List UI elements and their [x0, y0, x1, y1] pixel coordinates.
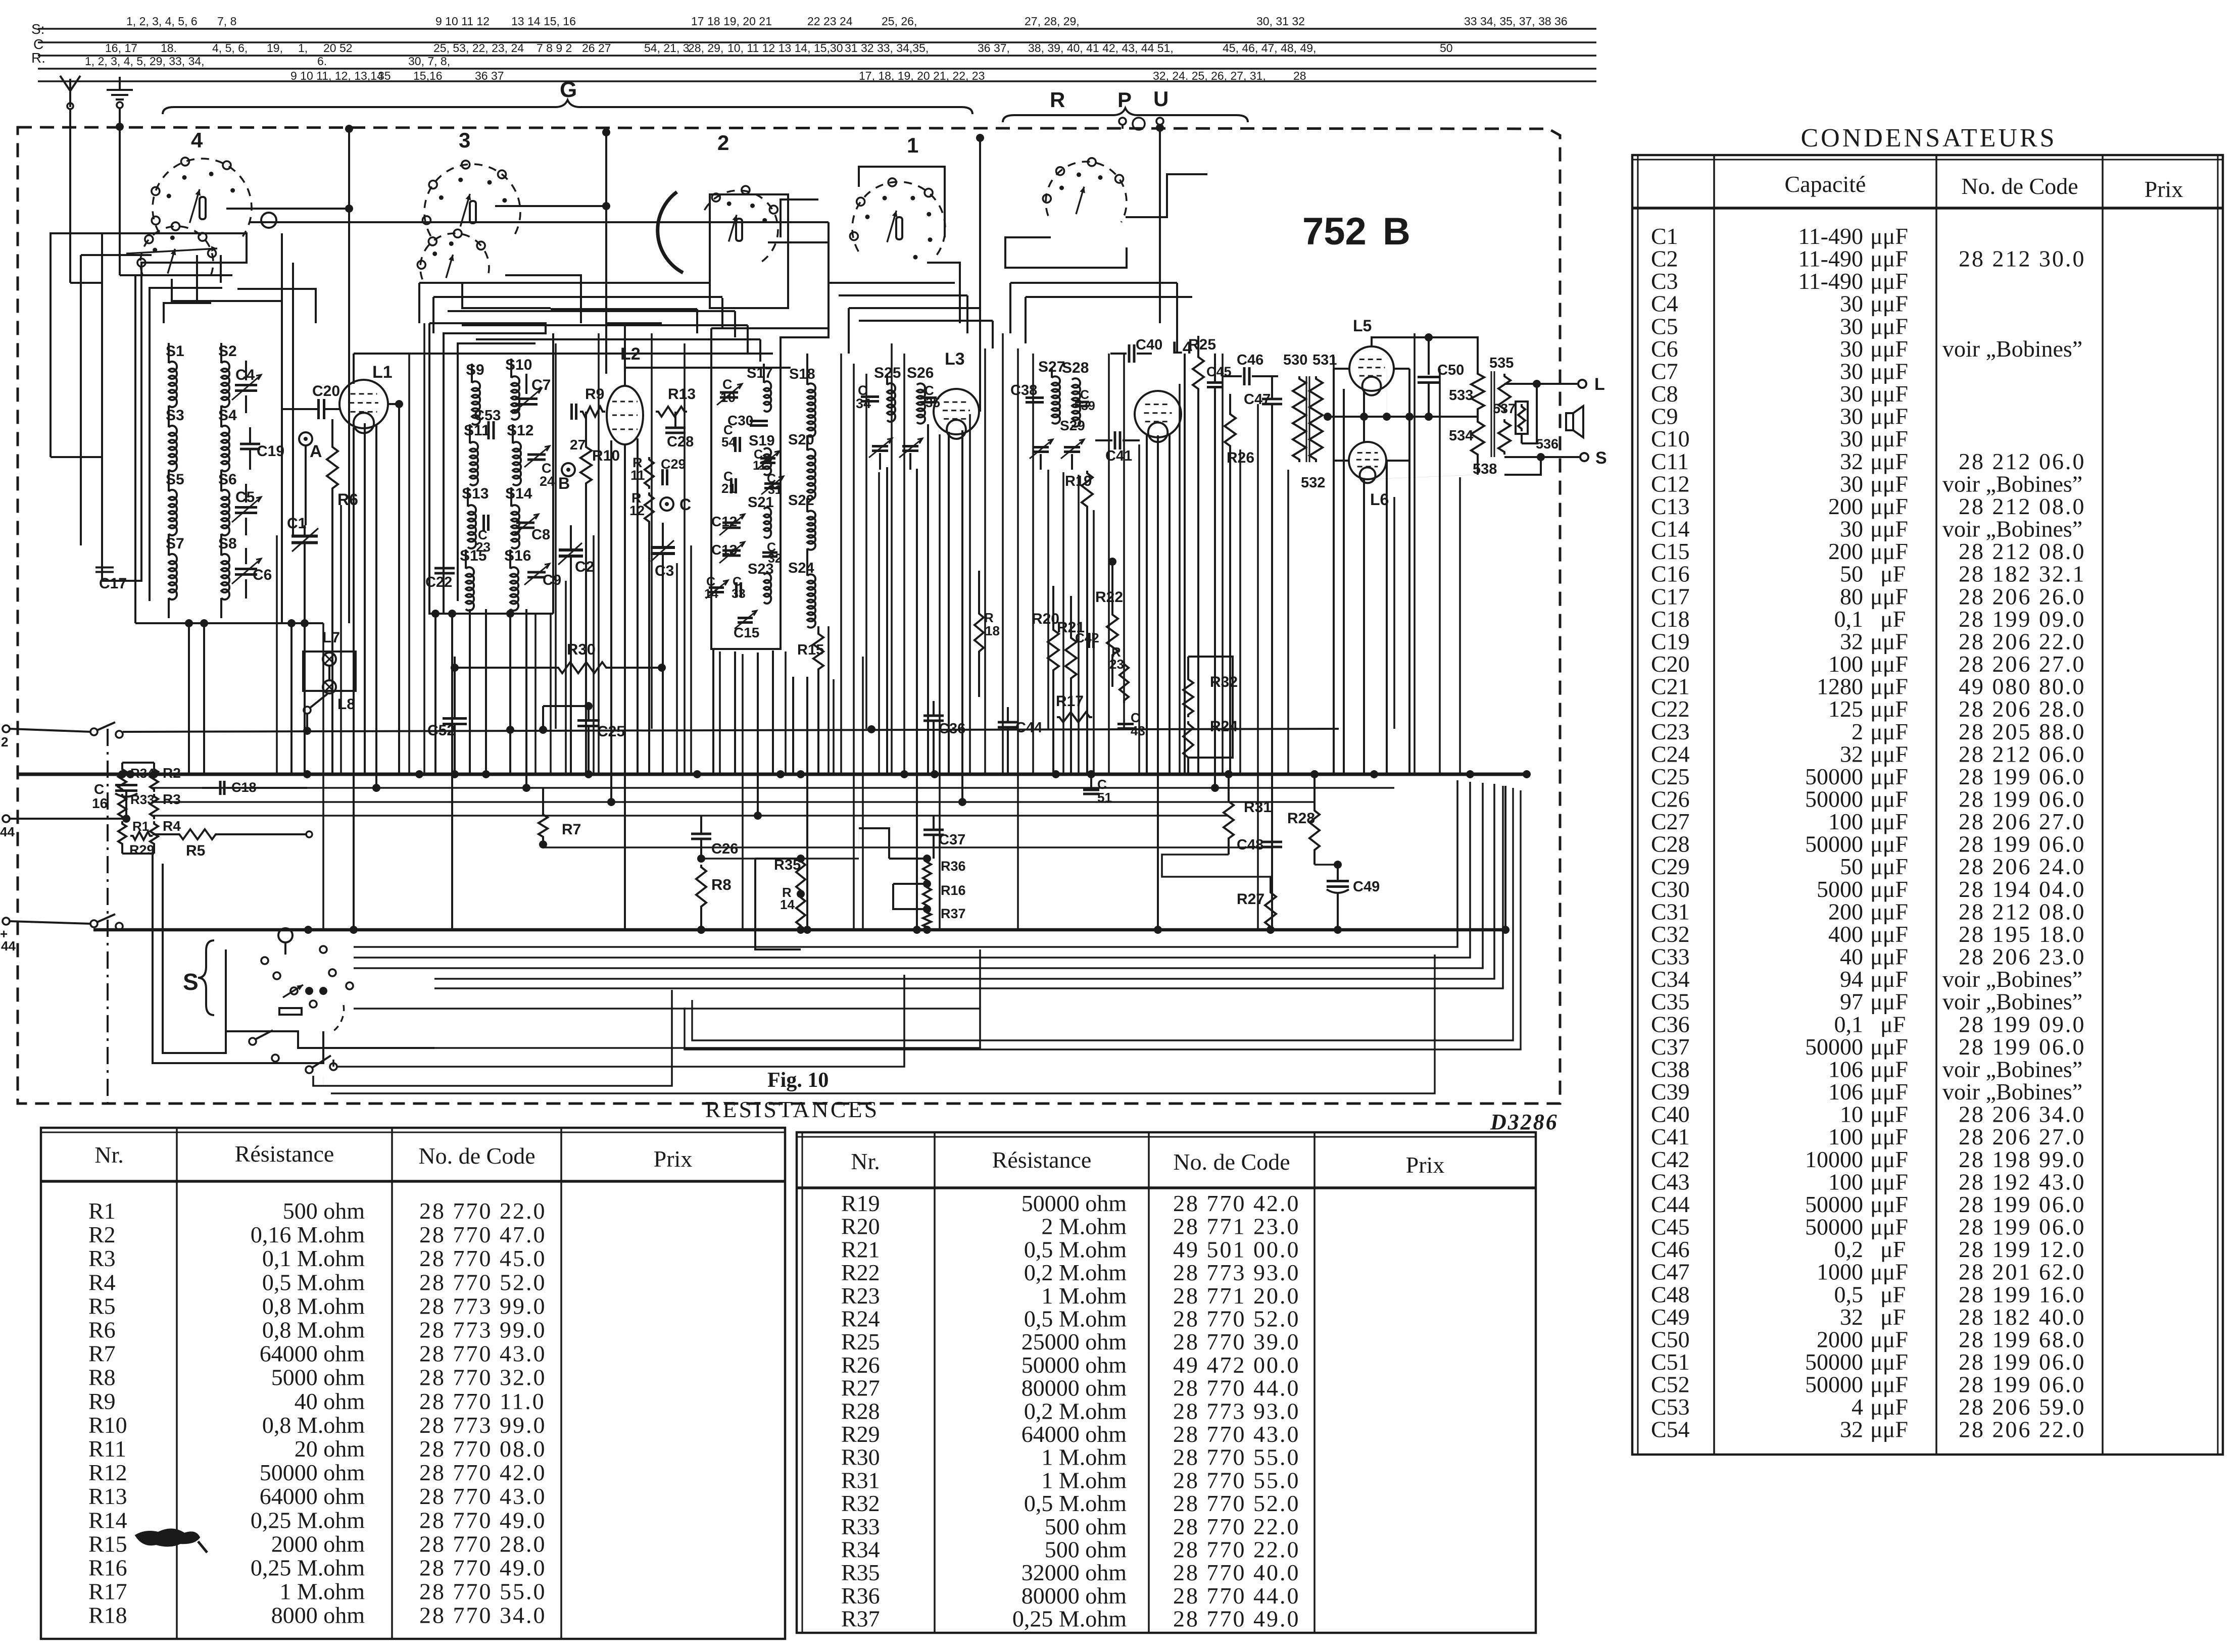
coil S21	[748, 494, 774, 538]
svg-text:44: 44	[0, 824, 15, 839]
svg-text:23: 23	[476, 539, 491, 555]
svg-text:0,5 M.ohm: 0,5 M.ohm	[1024, 1306, 1127, 1332]
winding 532 label	[1301, 475, 1325, 491]
svg-text:28 770 45.0: 28 770 45.0	[419, 1245, 547, 1271]
svg-text:U: U	[1153, 87, 1169, 111]
svg-text:μμF: μμF	[1870, 764, 1908, 789]
svg-text:R3: R3	[88, 1245, 116, 1271]
svg-text:36 37,: 36 37,	[978, 41, 1010, 55]
svg-text:μμF: μμF	[1870, 651, 1908, 677]
svg-text:C49: C49	[1651, 1304, 1690, 1330]
switch 4 contact wires	[126, 209, 829, 323]
svg-text:S: S	[183, 969, 199, 995]
wire mid lines 3	[152, 812, 1228, 820]
svg-text:R32: R32	[841, 1490, 880, 1516]
svg-text:L5: L5	[1353, 317, 1372, 335]
winding 530	[1283, 352, 1307, 462]
svg-text:28, 29,: 28, 29,	[688, 41, 723, 55]
capacitor C43	[1117, 710, 1145, 738]
resistor R4	[150, 818, 181, 846]
svg-text:C18: C18	[1651, 606, 1690, 632]
coil S4	[218, 407, 237, 490]
svg-text:28 770 11.0: 28 770 11.0	[419, 1388, 546, 1414]
resistor R19	[1065, 471, 1093, 774]
svg-text:4, 5, 6,: 4, 5, 6,	[212, 41, 248, 55]
tube L6	[1349, 442, 1389, 509]
resistor R9	[572, 386, 606, 420]
svg-text:voir „Bobines”: voir „Bobines”	[1942, 989, 2082, 1015]
svg-text:μF: μF	[1880, 1281, 1906, 1307]
svg-text:C1: C1	[287, 515, 306, 532]
svg-text:28 770 44.0: 28 770 44.0	[1173, 1375, 1300, 1401]
capacitor C33	[732, 575, 746, 601]
tube L2	[607, 344, 791, 444]
coil S12	[507, 422, 533, 485]
coil S7	[166, 535, 184, 618]
svg-text:R4: R4	[163, 818, 181, 834]
svg-text:28 199 06.0: 28 199 06.0	[1959, 1214, 2086, 1240]
svg-text:0,16 M.ohm: 0,16 M.ohm	[251, 1222, 365, 1247]
capacitor C2	[558, 525, 594, 774]
svg-text:C16: C16	[1651, 561, 1690, 587]
svg-text:200: 200	[1828, 538, 1863, 564]
resistor R16	[923, 880, 966, 908]
resistor R21	[1057, 596, 1085, 774]
svg-text:533: 533	[1449, 387, 1473, 404]
coil S23	[748, 561, 774, 604]
svg-text:μμF: μμF	[1870, 1102, 1908, 1127]
svg-text:C38: C38	[1651, 1056, 1690, 1082]
speaker	[1566, 406, 1583, 437]
svg-text:49 501 00.0: 49 501 00.0	[1173, 1236, 1300, 1262]
svg-text:C40: C40	[1136, 337, 1162, 353]
lamp L8	[304, 666, 355, 731]
svg-text:28 199 06.0: 28 199 06.0	[1959, 831, 2086, 857]
table resistances R1-R18	[41, 1128, 785, 1639]
svg-text:R35: R35	[841, 1560, 880, 1585]
svg-text:28 212 08.0: 28 212 08.0	[1959, 538, 2086, 564]
node R row label	[31, 50, 45, 66]
capacitor C28	[665, 412, 694, 450]
svg-text:R34: R34	[841, 1537, 880, 1563]
svg-text:15,16: 15,16	[413, 69, 443, 82]
svg-text:2000: 2000	[1817, 1326, 1863, 1352]
svg-text:C44: C44	[1651, 1191, 1690, 1217]
svg-text:R8: R8	[88, 1365, 116, 1390]
harness wire numbers	[85, 15, 1568, 82]
winding 534	[1368, 419, 1484, 479]
capacitor C51	[1083, 770, 1112, 805]
svg-text:1, 2, 3, 4, 5, 29, 33, 34,: 1, 2, 3, 4, 5, 29, 33, 34,	[85, 55, 205, 68]
svg-text:16, 17: 16, 17	[105, 41, 137, 55]
resistor R34	[118, 766, 155, 792]
svg-text:50000: 50000	[1805, 1034, 1863, 1060]
svg-text:28 770 43.0: 28 770 43.0	[419, 1341, 547, 1367]
svg-text:μμF: μμF	[1870, 966, 1908, 992]
svg-text:0,25 M.ohm: 0,25 M.ohm	[251, 1555, 365, 1581]
svg-text:S22: S22	[788, 492, 814, 509]
wire routing h3	[448, 311, 735, 337]
svg-text:μμF: μμF	[1870, 493, 1908, 519]
resistor R18	[975, 571, 1000, 697]
svg-text:S29: S29	[1060, 418, 1085, 433]
svg-text:S28: S28	[1062, 360, 1089, 376]
svg-text:Résistance: Résistance	[992, 1147, 1092, 1173]
svg-text:C48: C48	[1237, 837, 1263, 853]
capacitor C26	[691, 816, 738, 863]
svg-text:C54: C54	[1651, 1417, 1690, 1442]
svg-text:9 10 11, 12, 13,14: 9 10 11, 12, 13,14	[290, 69, 383, 82]
coil bank 2 outline wires	[429, 323, 553, 614]
svg-text:μμF: μμF	[1870, 1169, 1908, 1194]
svg-text:0,5: 0,5	[1834, 1281, 1864, 1307]
svg-text:C45: C45	[1651, 1214, 1690, 1240]
svg-text:28 773 99.0: 28 773 99.0	[419, 1293, 547, 1319]
svg-text:0,2 M.ohm: 0,2 M.ohm	[1024, 1398, 1127, 1424]
svg-text:1 M.ohm: 1 M.ohm	[279, 1579, 365, 1605]
svg-text:μμF: μμF	[1870, 921, 1908, 947]
svg-text:C43: C43	[1651, 1169, 1690, 1194]
wire routing h4	[462, 325, 748, 354]
svg-text:28 773 93.0: 28 773 93.0	[1173, 1260, 1300, 1285]
svg-text:11: 11	[753, 459, 766, 473]
bank3 outline	[711, 328, 829, 649]
svg-text:1,: 1,	[298, 41, 308, 55]
svg-text:C12: C12	[711, 514, 737, 529]
svg-text:S9: S9	[466, 362, 484, 378]
svg-text:28 182 32.1: 28 182 32.1	[1959, 561, 2086, 587]
svg-text:23: 23	[1109, 657, 1124, 672]
coil S18	[789, 354, 815, 437]
svg-text:R6: R6	[88, 1317, 116, 1343]
svg-text:80000 ohm: 80000 ohm	[1021, 1583, 1127, 1609]
svg-text:50000 ohm: 50000 ohm	[1021, 1190, 1127, 1216]
coil bank 1 outline wires	[51, 233, 293, 623]
svg-text:R28: R28	[841, 1398, 880, 1424]
svg-text:30: 30	[1840, 404, 1863, 429]
svg-text:28 770 22.0: 28 770 22.0	[1173, 1514, 1300, 1539]
capacitor C50	[1418, 362, 1464, 421]
svg-text:C15: C15	[734, 625, 759, 640]
svg-text:C14: C14	[1651, 516, 1690, 542]
svg-text:50000: 50000	[1805, 1191, 1863, 1217]
svg-text:28 192 43.0: 28 192 43.0	[1959, 1169, 2086, 1194]
svg-text:C5: C5	[1651, 313, 1678, 339]
capacitor C15	[734, 611, 759, 640]
svg-text:S:: S:	[31, 21, 44, 37]
svg-text:R16: R16	[941, 883, 966, 898]
svg-text:1000: 1000	[1817, 1259, 1863, 1285]
svg-text:μF: μF	[1880, 606, 1906, 632]
svg-text:28 770 28.0: 28 770 28.0	[419, 1531, 547, 1557]
svg-text:4: 4	[1852, 1394, 1863, 1420]
wire v long G2	[602, 128, 610, 374]
coil S5	[166, 471, 184, 554]
svg-text:μμF: μμF	[1870, 1079, 1908, 1105]
svg-text:40 ohm: 40 ohm	[295, 1388, 365, 1414]
wire R36 link	[859, 828, 927, 909]
svg-text:C26: C26	[1651, 786, 1690, 812]
svg-text:C48: C48	[1651, 1281, 1690, 1307]
terminal in 44	[0, 815, 126, 839]
resistor R26	[1225, 394, 1254, 774]
brace G	[163, 77, 972, 114]
svg-text:C42: C42	[1651, 1146, 1690, 1172]
capacitor C16	[92, 781, 137, 823]
trimmer det2	[899, 438, 922, 470]
capacitor C1	[287, 515, 318, 561]
svg-text:0,8 M.ohm: 0,8 M.ohm	[262, 1412, 365, 1438]
svg-text:50000: 50000	[1805, 1349, 1863, 1375]
svg-text:μμF: μμF	[1870, 426, 1908, 452]
capacitor C34	[856, 383, 879, 411]
terminal P	[1117, 88, 1145, 130]
svg-text:28 199 68.0: 28 199 68.0	[1959, 1326, 2086, 1352]
resistor R5	[153, 829, 312, 859]
svg-text:0,8 M.ohm: 0,8 M.ohm	[262, 1317, 365, 1343]
svg-text:C29: C29	[1651, 854, 1690, 879]
svg-text:μμF: μμF	[1870, 358, 1908, 384]
svg-text:R10: R10	[88, 1412, 127, 1438]
svg-text:μμF: μμF	[1870, 404, 1908, 429]
svg-text:10: 10	[720, 390, 736, 405]
svg-text:28 199 06.0: 28 199 06.0	[1959, 1034, 2086, 1060]
svg-text:μμF: μμF	[1870, 381, 1908, 407]
svg-text:C7: C7	[531, 377, 551, 393]
svg-text:Prix: Prix	[654, 1146, 693, 1172]
svg-text:μμF: μμF	[1870, 1326, 1908, 1352]
svg-text:μμF: μμF	[1870, 448, 1908, 474]
svg-text:S11: S11	[464, 422, 490, 439]
capacitor C8	[513, 514, 550, 543]
svg-text:R1: R1	[132, 819, 149, 834]
resistor R15	[797, 626, 824, 774]
wire L1 leads	[339, 400, 403, 930]
svg-text:μμF: μμF	[1870, 1259, 1908, 1285]
terminal C	[660, 495, 691, 514]
svg-text:Nr.: Nr.	[94, 1142, 124, 1168]
wire bank2 drops	[429, 609, 553, 930]
switch det wires	[1005, 237, 1127, 268]
coil S29 label	[1060, 418, 1085, 433]
model title 752 B	[1302, 210, 1410, 253]
svg-text:0,1: 0,1	[1834, 606, 1864, 632]
resistor R10	[580, 412, 620, 774]
wire ground drop	[116, 108, 135, 275]
svg-text:43: 43	[1131, 723, 1145, 738]
svg-text:400: 400	[1828, 921, 1863, 947]
wire routing h9	[849, 308, 980, 354]
svg-text:C8: C8	[1651, 381, 1678, 407]
svg-text:1: 1	[907, 133, 918, 157]
capacitor C5	[232, 484, 261, 535]
capacitor C36	[923, 701, 965, 774]
svg-text:28 770 52.0: 28 770 52.0	[419, 1269, 547, 1295]
svg-text:C53: C53	[1651, 1394, 1690, 1420]
coil S19	[749, 433, 775, 475]
svg-text:28 199 09.0: 28 199 09.0	[1959, 606, 2086, 632]
coil S11	[464, 422, 490, 485]
svg-text:28 199 06.0: 28 199 06.0	[1959, 764, 2086, 789]
svg-text:voir „Bobines”: voir „Bobines”	[1942, 966, 2082, 992]
svg-text:μμF: μμF	[1870, 1394, 1908, 1420]
coil S25	[874, 365, 901, 422]
capacitor C40	[1110, 337, 1162, 363]
svg-text:Fig. 10: Fig. 10	[767, 1069, 829, 1092]
winding 535	[1489, 355, 1514, 412]
svg-text:44: 44	[1, 938, 16, 954]
terminal L	[1504, 375, 1605, 394]
svg-text:30: 30	[1840, 471, 1863, 496]
svg-text:500 ohm: 500 ohm	[283, 1198, 365, 1224]
svg-text:50000 ohm: 50000 ohm	[260, 1460, 365, 1485]
svg-text:536: 536	[1536, 436, 1559, 452]
svg-text:S10: S10	[505, 357, 532, 373]
svg-text:11-490: 11-490	[1798, 223, 1863, 249]
svg-text:μμF: μμF	[1870, 944, 1908, 970]
svg-text:μF: μF	[1880, 1236, 1906, 1262]
resistor R33	[118, 792, 155, 819]
svg-text:100: 100	[1828, 809, 1863, 834]
svg-text:17 18 19, 20 21: 17 18 19, 20 21	[691, 15, 772, 28]
svg-text:1, 2, 3, 4, 5, 6: 1, 2, 3, 4, 5, 6	[126, 15, 198, 28]
svg-text:R21: R21	[841, 1236, 880, 1262]
svg-text:S19: S19	[749, 433, 775, 449]
svg-text:2: 2	[1, 734, 8, 749]
svg-text:28 770 39.0: 28 770 39.0	[1173, 1329, 1300, 1355]
svg-text:49 472 00.0: 49 472 00.0	[1173, 1352, 1300, 1378]
svg-text:R5: R5	[186, 842, 205, 859]
svg-text:49 080 80.0: 49 080 80.0	[1959, 674, 2086, 699]
svg-text:C50: C50	[1651, 1326, 1690, 1352]
rotary switch 2 arc	[658, 186, 788, 308]
svg-text:14: 14	[704, 587, 718, 601]
wire routing h10	[859, 321, 993, 348]
svg-text:S17: S17	[747, 365, 773, 381]
resistor R12	[629, 490, 654, 524]
wire bank1 bottom	[135, 619, 323, 627]
svg-text:C49: C49	[1353, 879, 1380, 895]
switch section 4 label	[191, 128, 203, 152]
coil S10	[505, 357, 532, 420]
svg-text:μμF: μμF	[1870, 246, 1908, 272]
svg-text:A: A	[310, 442, 322, 461]
svg-text:C25: C25	[1651, 764, 1690, 789]
wire S out lines	[313, 780, 1503, 1086]
svg-text:C46: C46	[1237, 352, 1263, 368]
ink smudge	[135, 1529, 207, 1553]
switch 2 contact wires	[722, 242, 829, 327]
svg-text:S21: S21	[748, 494, 774, 511]
svg-text:μμF: μμF	[1870, 268, 1908, 294]
svg-text:R26: R26	[841, 1352, 880, 1378]
tube L3	[934, 349, 979, 439]
svg-text:32, 24. 25, 26, 27, 31,: 32, 24. 25, 26, 27, 31,	[1153, 69, 1266, 82]
svg-text:32: 32	[1840, 1417, 1863, 1442]
resistor R27	[1237, 877, 1276, 934]
svg-text:μμF: μμF	[1870, 696, 1908, 722]
svg-text:16: 16	[92, 795, 108, 811]
coil S13	[462, 485, 489, 548]
svg-text:28: 28	[1293, 69, 1306, 82]
svg-text:S13: S13	[462, 485, 489, 502]
terminal B	[558, 437, 586, 492]
svg-text:voir „Bobines”: voir „Bobines”	[1942, 336, 2082, 362]
svg-text:19,: 19,	[267, 41, 283, 55]
coil S27	[1038, 359, 1065, 424]
switch 1 contact wires	[781, 167, 960, 323]
antenna	[60, 76, 80, 109]
coil S26	[907, 365, 934, 424]
svg-text:R13: R13	[668, 386, 696, 403]
wire left loop	[153, 854, 323, 1063]
svg-text:80: 80	[1840, 583, 1863, 609]
svg-text:28 194 04.0: 28 194 04.0	[1959, 876, 2086, 902]
svg-text:R8: R8	[711, 876, 732, 893]
wire R35 branch	[755, 859, 801, 949]
svg-text:μμF: μμF	[1870, 1349, 1908, 1375]
svg-text:33 34, 35, 37, 38 36: 33 34, 35, 37, 38 36	[1464, 15, 1568, 28]
svg-text:CONDENSATEURS: CONDENSATEURS	[1800, 124, 2057, 153]
wire bank3 drops	[713, 649, 807, 930]
svg-text:S12: S12	[507, 422, 533, 439]
coil S15	[460, 547, 486, 611]
wire routing h2	[433, 297, 722, 333]
svg-text:50000: 50000	[1805, 786, 1863, 812]
svg-text:C17: C17	[99, 575, 127, 592]
svg-text:28 199 06.0: 28 199 06.0	[1959, 786, 2086, 812]
capacitor C45	[1206, 354, 1232, 788]
svg-text:C37: C37	[939, 832, 965, 848]
svg-text:100: 100	[1828, 651, 1863, 677]
svg-text:28 771 23.0: 28 771 23.0	[1173, 1214, 1300, 1239]
svg-text:28 770 34.0: 28 770 34.0	[419, 1603, 547, 1628]
capacitor C3	[651, 523, 675, 774]
svg-text:28 206 23.0: 28 206 23.0	[1959, 944, 2086, 970]
capacitor C44	[998, 707, 1042, 774]
svg-text:18: 18	[985, 623, 1000, 638]
svg-text:7, 8: 7, 8	[217, 15, 236, 28]
svg-text:50: 50	[1440, 41, 1453, 55]
capacitor C37	[923, 815, 965, 859]
winding 533	[1449, 371, 1484, 419]
svg-text:94: 94	[1840, 966, 1863, 992]
wire mid lines 2	[152, 798, 1313, 806]
switch S terminal Q	[278, 928, 293, 955]
wire top feed	[123, 725, 1339, 735]
wire L5-L6 links	[1324, 369, 1478, 774]
svg-text:2 M.ohm: 2 M.ohm	[1041, 1214, 1127, 1239]
svg-text:C40: C40	[1651, 1102, 1690, 1127]
switch section 1 label	[907, 133, 918, 157]
trimmer det1	[869, 438, 892, 470]
svg-text:C35: C35	[1651, 989, 1690, 1015]
bus chassis	[93, 786, 1510, 934]
svg-text:28 206 24.0: 28 206 24.0	[1959, 854, 2086, 879]
svg-text:C23: C23	[1651, 719, 1690, 744]
svg-text:21: 21	[721, 481, 736, 496]
svg-text:0,25 M.ohm: 0,25 M.ohm	[1012, 1606, 1127, 1632]
svg-text:C39: C39	[1651, 1079, 1690, 1105]
wire routing h11	[551, 309, 697, 333]
svg-text:537: 537	[1493, 401, 1516, 416]
svg-text:10000: 10000	[1805, 1146, 1863, 1172]
svg-text:μμF: μμF	[1870, 1191, 1908, 1217]
switch 3 contact wires	[462, 206, 606, 323]
svg-text:11-490: 11-490	[1798, 246, 1863, 272]
svg-text:2000 ohm: 2000 ohm	[271, 1531, 365, 1557]
svg-text:C20: C20	[312, 383, 340, 399]
